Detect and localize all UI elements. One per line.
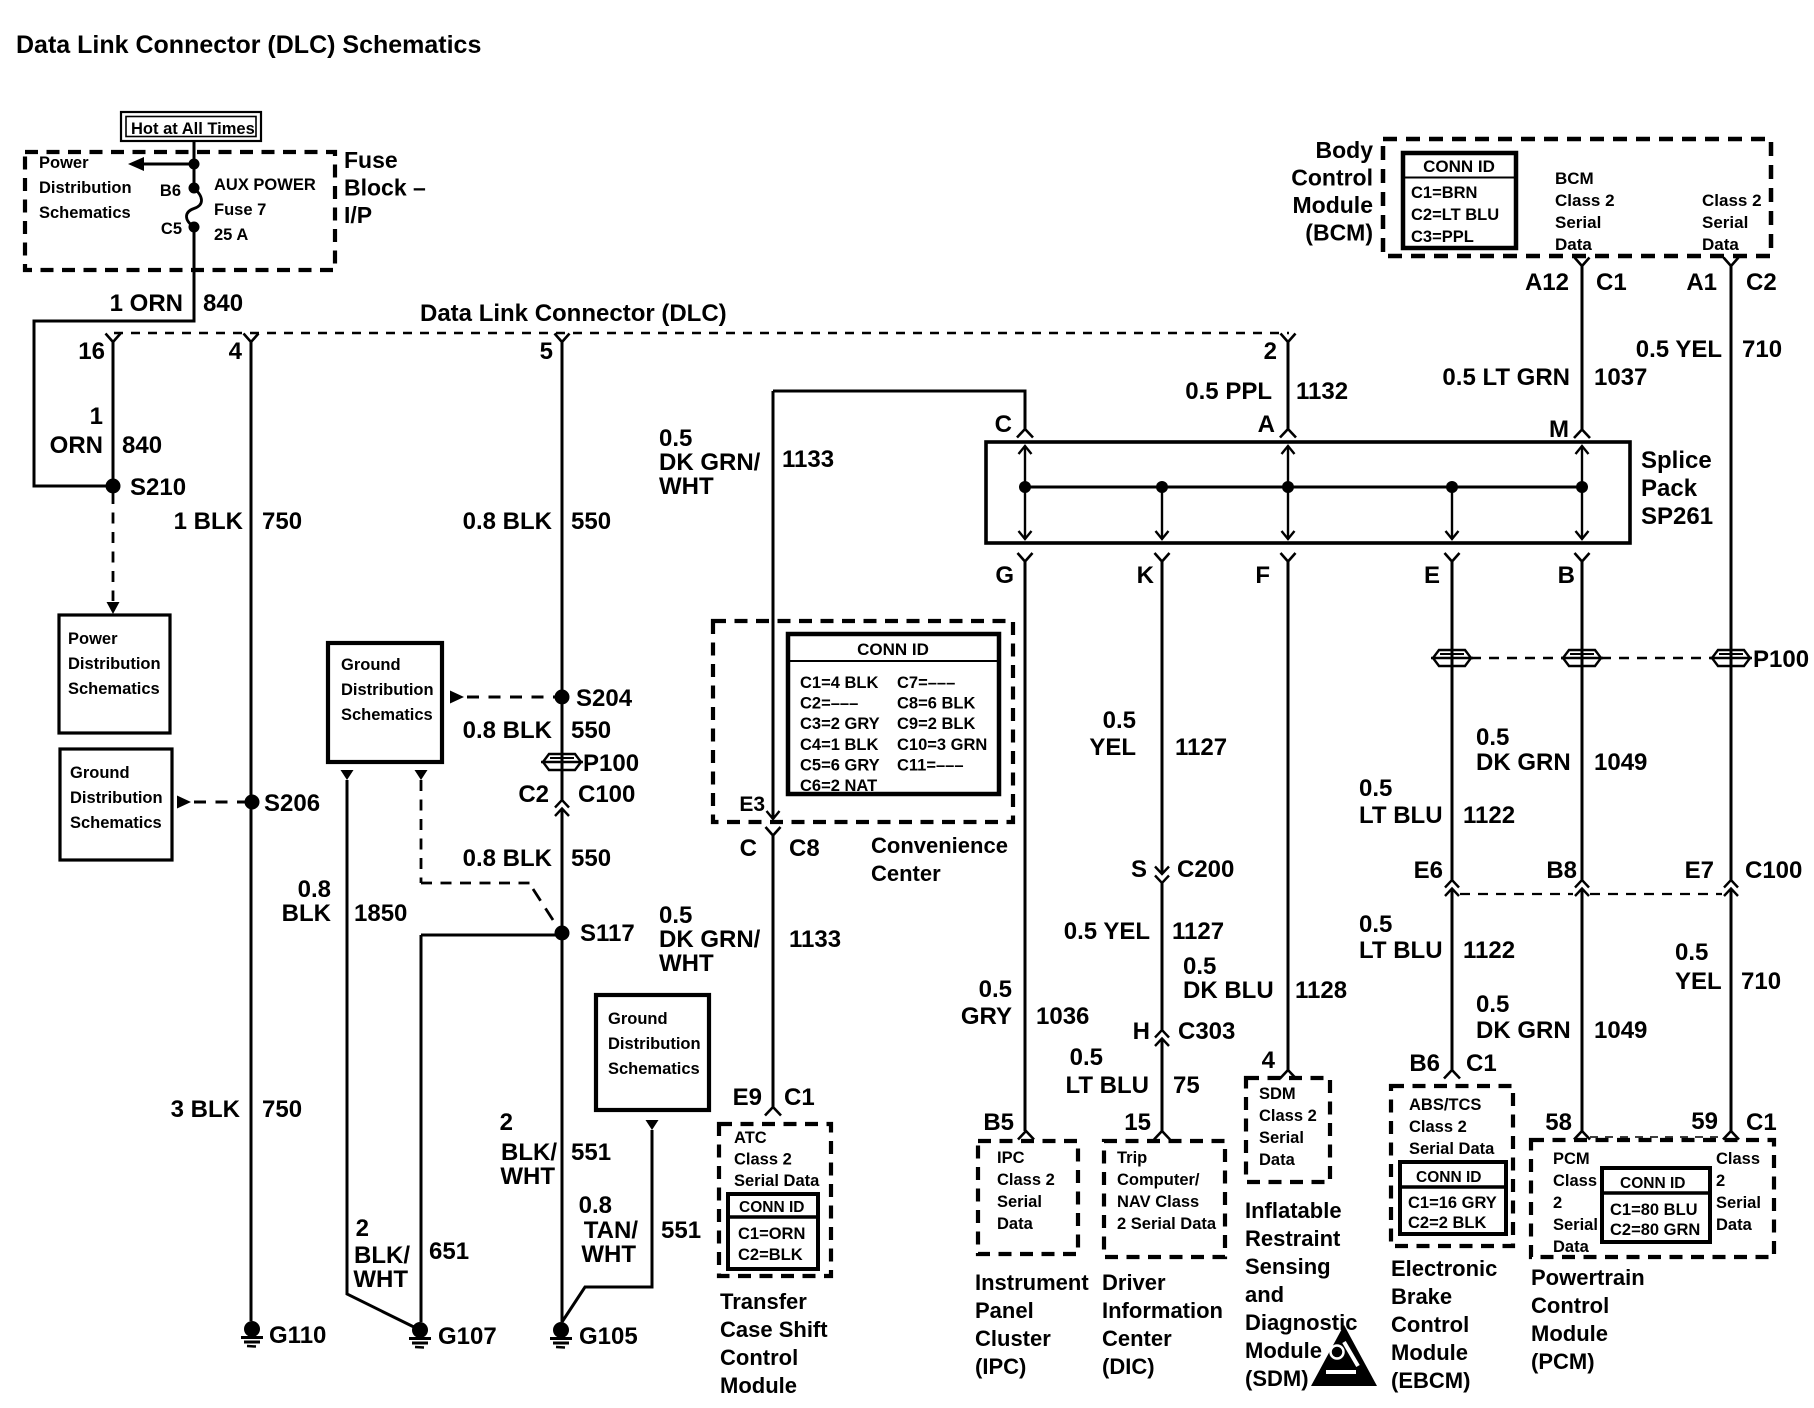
arrow to power distribution [128, 157, 200, 171]
wire 1133 vertical [772, 391, 775, 819]
dashed line E6 B8 E7 [1460, 893, 1722, 895]
label Body Control Module BCM [1291, 137, 1373, 246]
svg-text:Body: Body [1316, 137, 1374, 163]
svg-text:S117: S117 [580, 920, 635, 947]
svg-text:0.5: 0.5 [979, 976, 1012, 1003]
svg-text:Module: Module [1391, 1340, 1468, 1365]
svg-text:and: and [1245, 1282, 1284, 1307]
svg-text:551: 551 [661, 1217, 701, 1244]
wire C100 to S117 [561, 809, 564, 932]
svg-text:C11=–––: C11=––– [897, 756, 964, 774]
svg-text:WHT: WHT [500, 1163, 555, 1190]
svg-text:C2=2 BLK: C2=2 BLK [1408, 1214, 1486, 1232]
svg-text:Schematics: Schematics [70, 814, 162, 832]
svg-text:Data: Data [997, 1215, 1034, 1233]
svg-text:E7: E7 [1685, 857, 1714, 884]
svg-text:B: B [1558, 562, 1575, 589]
note class 2 serial data right [1702, 191, 1762, 254]
fuse block dashed box [25, 152, 335, 270]
svg-text:C3=PPL: C3=PPL [1411, 228, 1474, 246]
svg-text:S204: S204 [576, 685, 633, 712]
wire BCM C1 to M [1581, 266, 1584, 430]
svg-text:E: E [1424, 562, 1440, 589]
label 0.5 YEL 710 lower [1675, 939, 1781, 995]
svg-text:1 BLK: 1 BLK [174, 508, 244, 535]
dashed wire S210 to power dist [107, 493, 120, 614]
svg-text:0.5 YEL: 0.5 YEL [1064, 918, 1150, 945]
connector P100 row [1431, 646, 1809, 673]
svg-text:K: K [1137, 562, 1155, 589]
BCM dashed box [1383, 139, 1771, 256]
wire TAN WHT to G105 [562, 1130, 652, 1322]
svg-text:C5=6 GRY: C5=6 GRY [800, 756, 880, 774]
svg-text:Block –: Block – [344, 175, 426, 201]
svg-text:0.5 YEL: 0.5 YEL [1636, 336, 1722, 363]
svg-text:PCM: PCM [1553, 1150, 1590, 1168]
svg-text:Information: Information [1102, 1298, 1223, 1323]
svg-text:C1: C1 [1466, 1050, 1497, 1077]
svg-text:651: 651 [429, 1238, 469, 1265]
PCM pins dashed link [1590, 1136, 1723, 1138]
label 0.5 GRY 1036 [961, 976, 1090, 1030]
terminal 4 SDM [1262, 1047, 1296, 1079]
svg-text:SDM: SDM [1259, 1085, 1296, 1103]
svg-text:Control: Control [720, 1345, 798, 1370]
svg-text:E3: E3 [739, 793, 765, 816]
label 1 ORN 840 [50, 403, 162, 459]
svg-text:Serial: Serial [1716, 1194, 1761, 1212]
svg-text:0.5: 0.5 [1103, 707, 1136, 734]
SDM dashed box [1246, 1078, 1330, 1182]
svg-text:Module: Module [1293, 192, 1374, 218]
svg-text:C1: C1 [1596, 269, 1627, 296]
EBCM dashed box [1391, 1086, 1513, 1246]
svg-text:Control: Control [1531, 1293, 1609, 1318]
wire pin 5 to S204 [561, 342, 564, 800]
ground distribution schematics box 1 [60, 749, 172, 860]
svg-text:Distribution: Distribution [341, 681, 434, 699]
svg-text:Computer/: Computer/ [1117, 1171, 1200, 1189]
svg-text:C100: C100 [1745, 857, 1802, 884]
svg-text:Serial Data: Serial Data [1409, 1140, 1495, 1158]
svg-text:C3=2 GRY: C3=2 GRY [800, 715, 880, 733]
PCM dashed box [1531, 1140, 1774, 1257]
svg-text:CONN ID: CONN ID [1423, 157, 1495, 176]
svg-text:C100: C100 [578, 781, 635, 808]
svg-text:Serial Data: Serial Data [734, 1172, 820, 1190]
svg-text:ABS/TCS: ABS/TCS [1409, 1096, 1481, 1114]
svg-text:Ground: Ground [70, 764, 130, 782]
svg-text:Hot at All Times: Hot at All Times [131, 120, 255, 138]
conn id table BCM [1403, 153, 1516, 248]
svg-text:2: 2 [1264, 338, 1277, 365]
svg-text:C1=4 BLK: C1=4 BLK [800, 674, 878, 692]
svg-text:(DIC): (DIC) [1102, 1354, 1155, 1379]
svg-text:Data: Data [1555, 235, 1592, 254]
svg-text:C1=BRN: C1=BRN [1411, 184, 1477, 202]
arrow ground dist to S204 [450, 691, 557, 704]
svg-text:1127: 1127 [1172, 918, 1224, 945]
label 1 ORN 840 top [110, 290, 243, 317]
svg-text:Center: Center [871, 861, 941, 886]
label Instrument Panel Cluster IPC [975, 1270, 1089, 1379]
svg-text:DK GRN/: DK GRN/ [659, 449, 761, 476]
svg-text:G107: G107 [438, 1323, 497, 1350]
label 0.5 PPL 1132 [1185, 378, 1348, 405]
terminal 15 DIC [1124, 1109, 1170, 1140]
svg-text:Schematics: Schematics [68, 680, 160, 698]
svg-text:0.5: 0.5 [1183, 953, 1216, 980]
splice S204 [555, 685, 633, 712]
svg-text:Ground: Ground [341, 656, 401, 674]
svg-text:Driver: Driver [1102, 1270, 1166, 1295]
svg-text:C2: C2 [1746, 269, 1777, 296]
svg-text:P100: P100 [1753, 646, 1809, 673]
svg-text:Class: Class [1716, 1150, 1760, 1168]
splice exit E [1424, 553, 1460, 880]
BCM pin A1 C2 [1686, 258, 1776, 297]
terminal 58 PCM [1545, 1109, 1590, 1140]
svg-text:S: S [1131, 856, 1147, 883]
svg-text:E9: E9 [733, 1084, 762, 1111]
conn id table EBCM [1400, 1162, 1506, 1234]
svg-text:AUX POWER: AUX POWER [214, 176, 316, 194]
svg-text:550: 550 [571, 717, 611, 744]
label 0.8 TAN WHT 551 [579, 1192, 701, 1268]
label Driver Information Center DIC [1102, 1270, 1223, 1379]
svg-text:B5: B5 [983, 1109, 1014, 1136]
svg-text:0.5: 0.5 [1070, 1044, 1103, 1071]
svg-text:Panel: Panel [975, 1298, 1034, 1323]
label 0.5 LT BLU 75 [1065, 1044, 1199, 1099]
splice tap C G [1019, 446, 1032, 539]
ground G107 [409, 1322, 497, 1350]
svg-text:0.5: 0.5 [1675, 939, 1708, 966]
conn id table convenience [788, 634, 999, 795]
svg-text:C1=16 GRY: C1=16 GRY [1408, 1194, 1497, 1212]
ground distribution schematics box 3 [596, 995, 709, 1110]
splice S206 [245, 790, 321, 817]
svg-text:IPC: IPC [997, 1149, 1025, 1167]
svg-text:Diagnostic: Diagnostic [1245, 1310, 1357, 1335]
svg-text:4: 4 [229, 338, 243, 365]
svg-text:0.8 BLK: 0.8 BLK [463, 717, 553, 744]
convenience center dashed box [713, 621, 1013, 822]
arrow box2 left drop [341, 770, 354, 780]
svg-text:B8: B8 [1546, 857, 1577, 884]
svg-text:DK GRN/: DK GRN/ [659, 926, 761, 953]
splice exit G [995, 553, 1032, 1131]
svg-text:A: A [1258, 411, 1275, 438]
svg-text:0.5: 0.5 [659, 425, 692, 452]
svg-text:710: 710 [1742, 336, 1782, 363]
connector P100 on wire 5 [541, 750, 639, 777]
svg-text:C2: C2 [518, 781, 549, 808]
svg-text:Sensing: Sensing [1245, 1254, 1331, 1279]
svg-text:1850: 1850 [354, 900, 407, 927]
connector C2 C100 [518, 781, 635, 816]
svg-text:C: C [995, 411, 1012, 438]
DLC pin 4 [229, 334, 259, 366]
svg-text:C2=–––: C2=––– [800, 695, 858, 713]
label 0.5 DK GRN WHT 1133 lower [659, 902, 841, 977]
wire S117 to 651 drop [421, 935, 562, 1322]
conn id table PCM [1602, 1168, 1710, 1242]
label 2 BLK WHT 651 [353, 1215, 469, 1293]
svg-text:DK GRN: DK GRN [1476, 749, 1571, 776]
terminal E9 C1 ATC [733, 1084, 815, 1116]
svg-text:Module: Module [720, 1373, 797, 1398]
label Inflatable Restraint SDM [1245, 1198, 1357, 1391]
svg-text:4: 4 [1262, 1047, 1276, 1074]
svg-text:550: 550 [571, 845, 611, 872]
svg-text:Distribution: Distribution [608, 1035, 701, 1053]
terminal B6 C1 EBCM [1409, 1050, 1496, 1079]
svg-text:Data: Data [1553, 1238, 1590, 1256]
wire C200 to C303 [1161, 883, 1164, 1030]
svg-text:Serial: Serial [1702, 213, 1748, 232]
svg-text:YEL: YEL [1089, 734, 1136, 761]
svg-text:0.5: 0.5 [1476, 991, 1509, 1018]
svg-text:0.8 BLK: 0.8 BLK [463, 508, 553, 535]
svg-text:Class 2: Class 2 [1702, 191, 1762, 210]
wire E7 to PCM [1730, 889, 1733, 1132]
svg-text:Control: Control [1391, 1312, 1469, 1337]
svg-text:G: G [995, 562, 1014, 589]
power distribution schematics box [59, 615, 170, 733]
label fuse block I/P [344, 147, 426, 228]
svg-text:F: F [1255, 562, 1270, 589]
wire S117 to G105 [561, 935, 564, 1322]
svg-text:Cluster: Cluster [975, 1326, 1051, 1351]
svg-text:Data: Data [1702, 235, 1739, 254]
svg-text:Distribution: Distribution [39, 179, 132, 197]
svg-text:WHT: WHT [659, 950, 714, 977]
splice tap E [1446, 481, 1459, 539]
svg-text:CONN ID: CONN ID [1416, 1169, 1481, 1186]
svg-text:840: 840 [122, 432, 162, 459]
svg-text:Schematics: Schematics [608, 1060, 700, 1078]
svg-text:Serial: Serial [1259, 1129, 1304, 1147]
svg-text:S210: S210 [130, 474, 186, 501]
svg-text:Instrument: Instrument [975, 1270, 1089, 1295]
svg-text:Data: Data [1716, 1216, 1753, 1234]
connector C C8 [740, 827, 820, 862]
wire E6 to EBCM [1451, 889, 1454, 1071]
svg-text:1036: 1036 [1036, 1003, 1089, 1030]
svg-text:1037: 1037 [1594, 364, 1647, 391]
svg-text:2 Serial Data: 2 Serial Data [1117, 1215, 1217, 1233]
svg-text:1049: 1049 [1594, 749, 1647, 776]
svg-text:C9=2 BLK: C9=2 BLK [897, 715, 975, 733]
svg-text:Class 2: Class 2 [997, 1171, 1055, 1189]
svg-text:DK GRN: DK GRN [1476, 1017, 1571, 1044]
wire pin 2 to splice A [1287, 342, 1290, 429]
svg-text:(EBCM): (EBCM) [1391, 1368, 1470, 1393]
svg-text:I/P: I/P [344, 202, 372, 228]
svg-text:Class: Class [1553, 1172, 1597, 1190]
svg-text:2: 2 [500, 1109, 513, 1136]
svg-text:Class 2: Class 2 [1259, 1107, 1317, 1125]
connector B8 [1546, 857, 1589, 896]
svg-text:E6: E6 [1414, 857, 1443, 884]
title [16, 31, 481, 59]
svg-text:B6: B6 [160, 182, 181, 200]
label Electronic Brake Control Module EBCM [1391, 1256, 1497, 1393]
svg-text:Class 2: Class 2 [734, 1151, 792, 1169]
svg-text:Transfer: Transfer [720, 1289, 807, 1314]
label 1 BLK 750 [174, 508, 302, 535]
svg-text:C8=6 BLK: C8=6 BLK [897, 695, 975, 713]
svg-text:551: 551 [571, 1139, 611, 1166]
splice tap M B [1576, 446, 1589, 539]
svg-text:1122: 1122 [1463, 802, 1515, 829]
svg-text:750: 750 [262, 1096, 302, 1123]
svg-text:Serial: Serial [1555, 213, 1601, 232]
svg-text:C2=LT BLU: C2=LT BLU [1411, 206, 1499, 224]
svg-text:Distribution: Distribution [68, 655, 161, 673]
svg-text:2: 2 [1716, 1172, 1725, 1190]
svg-text:CONN ID: CONN ID [1620, 1175, 1685, 1192]
note power distribution schematics [39, 154, 132, 222]
svg-text:1049: 1049 [1594, 1017, 1647, 1044]
svg-text:NAV Class: NAV Class [1117, 1193, 1199, 1211]
svg-text:3 BLK: 3 BLK [171, 1096, 241, 1123]
svg-text:C200: C200 [1177, 856, 1234, 883]
svg-text:2: 2 [1553, 1194, 1562, 1212]
svg-text:C303: C303 [1178, 1018, 1235, 1045]
svg-text:G105: G105 [579, 1323, 638, 1350]
svg-text:0.5: 0.5 [1476, 724, 1509, 751]
svg-text:1122: 1122 [1463, 937, 1515, 964]
svg-text:Fuse: Fuse [344, 147, 398, 173]
label Splice Pack SP261 [1641, 447, 1713, 530]
terminal E3 [739, 793, 779, 819]
splice entry M [1549, 416, 1590, 443]
svg-text:1133: 1133 [789, 926, 841, 953]
svg-text:1132: 1132 [1296, 378, 1348, 405]
svg-text:1127: 1127 [1175, 734, 1227, 761]
svg-text:Restraint: Restraint [1245, 1226, 1341, 1251]
label 3 BLK 750 [171, 1096, 302, 1123]
label 0.8 BLK 550 upper [463, 508, 611, 535]
svg-text:BLK: BLK [282, 900, 332, 927]
svg-text:C1: C1 [1746, 1109, 1777, 1136]
svg-text:C4=1 BLK: C4=1 BLK [800, 736, 878, 754]
svg-text:(PCM): (PCM) [1531, 1349, 1595, 1374]
arrow box2 right drop [415, 770, 428, 780]
svg-text:0.5: 0.5 [1359, 911, 1392, 938]
ground G110 [241, 1321, 326, 1349]
wire 1850 to G107 [347, 780, 420, 1330]
svg-text:Serial: Serial [997, 1193, 1042, 1211]
connector E7 C100 [1685, 857, 1803, 896]
wire C8 to ATC [772, 836, 775, 1108]
svg-text:59: 59 [1691, 1108, 1718, 1135]
label 0.8 BLK 550 mid [463, 717, 611, 744]
svg-text:LT BLU: LT BLU [1065, 1072, 1149, 1099]
arrow ground dist to S206 [177, 796, 248, 809]
wire 1133 horizontal [773, 391, 1025, 429]
splice S117 [555, 920, 635, 947]
splice entry C [995, 411, 1033, 438]
svg-text:Module: Module [1245, 1338, 1322, 1363]
svg-text:C1=80 BLU: C1=80 BLU [1610, 1201, 1698, 1219]
svg-text:Schematics: Schematics [39, 204, 131, 222]
svg-text:5: 5 [540, 338, 553, 365]
svg-text:Ground: Ground [608, 1010, 668, 1028]
label 0.5 YEL 710 upper [1636, 336, 1782, 363]
label 0.5 LT GRN 1037 [1442, 364, 1647, 391]
svg-text:CONN ID: CONN ID [857, 640, 929, 659]
splice pack bus [1025, 486, 1582, 489]
svg-text:Class 2: Class 2 [1555, 191, 1615, 210]
svg-text:Powertrain: Powertrain [1531, 1265, 1645, 1290]
svg-text:Power: Power [39, 154, 89, 172]
splice exit B [1558, 553, 1590, 880]
svg-text:Class 2: Class 2 [1409, 1118, 1467, 1136]
label Convenience Center [871, 833, 1008, 886]
svg-text:0.8: 0.8 [298, 876, 331, 903]
svg-text:C10=3 GRN: C10=3 GRN [897, 736, 987, 754]
splice tap A F [1282, 446, 1295, 539]
svg-text:C1=ORN: C1=ORN [738, 1225, 805, 1243]
wire C303 to DIC [1161, 1039, 1164, 1132]
svg-text:H: H [1133, 1018, 1150, 1045]
label 0.5 LT BLU 1122 upper [1359, 775, 1515, 829]
svg-text:G110: G110 [269, 1322, 326, 1349]
svg-text:550: 550 [571, 508, 611, 535]
wire pin 4 to G110 [250, 342, 253, 1321]
svg-text:ORN: ORN [50, 432, 103, 459]
svg-text:Convenience: Convenience [871, 833, 1008, 858]
wire hot feed [193, 141, 196, 189]
dashed wire to S117 [421, 780, 553, 920]
ground distribution schematics box 2 [328, 643, 442, 762]
svg-text:(IPC): (IPC) [975, 1354, 1026, 1379]
svg-text:A1: A1 [1686, 269, 1717, 296]
arrow box3 drop [646, 1120, 659, 1130]
svg-text:WHT: WHT [659, 473, 714, 500]
svg-text:0.5 PPL: 0.5 PPL [1185, 378, 1272, 405]
IPC dashed box [978, 1141, 1078, 1254]
svg-text:Module: Module [1531, 1321, 1608, 1346]
note PCM class 2 serial data [1553, 1150, 1598, 1256]
splice tap K [1156, 481, 1169, 539]
terminal 59 C1 PCM [1691, 1108, 1776, 1140]
DLC pin 16 [78, 334, 120, 366]
svg-text:Power: Power [68, 630, 118, 648]
DIC dashed box [1104, 1141, 1225, 1257]
svg-text:LT BLU: LT BLU [1359, 937, 1443, 964]
svg-text:25 A: 25 A [214, 226, 248, 244]
svg-text:0.5: 0.5 [659, 902, 692, 929]
svg-text:710: 710 [1741, 968, 1781, 995]
svg-text:CONN ID: CONN ID [739, 1199, 804, 1216]
ground G105 [550, 1322, 638, 1350]
svg-text:Schematics: Schematics [341, 706, 433, 724]
label Hot at All Times box [121, 112, 261, 141]
svg-text:75: 75 [1173, 1072, 1200, 1099]
label 0.5 LT BLU 1122 lower [1359, 911, 1515, 964]
ATC dashed box [719, 1124, 831, 1276]
svg-text:0.5 LT GRN: 0.5 LT GRN [1442, 364, 1570, 391]
svg-text:Fuse 7: Fuse 7 [214, 201, 266, 219]
label 0.8 BLK 1850 [282, 876, 408, 927]
svg-text:840: 840 [203, 290, 243, 317]
SRS icon triangle [1311, 1325, 1377, 1386]
DLC pin 2 [1264, 334, 1296, 366]
